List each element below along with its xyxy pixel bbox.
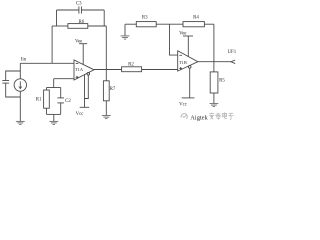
svg-text:Vcc: Vcc [179,102,188,107]
svg-text:T1B: T1B [179,60,187,65]
svg-text:Vee: Vee [179,32,186,37]
svg-text:C2: C2 [65,99,71,104]
svg-text:R2: R2 [128,62,134,67]
svg-text:Vee: Vee [75,39,82,44]
svg-text:Aigtek: Aigtek [190,114,208,121]
svg-text:R1: R1 [36,97,42,102]
svg-text:C3: C3 [76,2,82,7]
svg-text:UF1: UF1 [227,50,236,55]
svg-text:Iin: Iin [21,58,27,63]
svg-text:Vcc: Vcc [76,112,85,117]
svg-text:R5: R5 [219,79,225,84]
svg-text:R7: R7 [110,87,116,92]
svg-text:T1A: T1A [75,67,84,72]
svg-text:R3: R3 [142,15,148,20]
svg-text:R6: R6 [78,20,84,25]
svg-text:R4: R4 [193,15,199,20]
